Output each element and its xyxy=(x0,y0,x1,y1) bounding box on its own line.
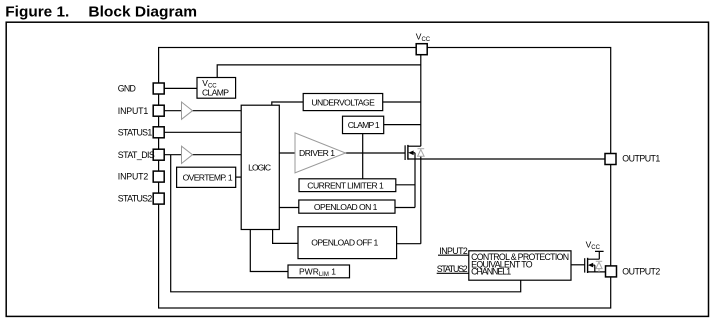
svg-text:INPUT1: INPUT1 xyxy=(118,106,149,116)
svg-text:INPUT2: INPUT2 xyxy=(118,172,149,182)
svg-text:STATUS1: STATUS1 xyxy=(118,127,153,137)
svg-text:VCC: VCC xyxy=(416,32,431,44)
svg-text:STATUS2: STATUS2 xyxy=(118,194,153,204)
svg-text:PWRLIM 1: PWRLIM 1 xyxy=(299,266,336,278)
svg-text:OUTPUT1: OUTPUT1 xyxy=(622,154,660,164)
svg-text:STATUS2: STATUS2 xyxy=(437,264,468,274)
svg-text:STAT_DIS: STAT_DIS xyxy=(118,150,155,160)
svg-text:OPENLOAD OFF 1: OPENLOAD OFF 1 xyxy=(311,238,378,248)
svg-text:CLAMP: CLAMP xyxy=(202,88,229,98)
svg-text:CLAMP 1: CLAMP 1 xyxy=(348,120,380,130)
svg-text:VCC: VCC xyxy=(586,239,601,251)
svg-text:LOGIC: LOGIC xyxy=(248,162,271,172)
svg-text:OPENLOAD ON 1: OPENLOAD ON 1 xyxy=(314,202,378,212)
svg-text:CURRENT LIMITER 1: CURRENT LIMITER 1 xyxy=(307,180,384,190)
svg-text:INPUT2: INPUT2 xyxy=(439,246,468,256)
svg-text:OVERTEMP. 1: OVERTEMP. 1 xyxy=(183,173,233,183)
svg-text:CHANNEL1: CHANNEL1 xyxy=(471,267,511,277)
svg-text:DRIVER 1: DRIVER 1 xyxy=(299,148,335,158)
svg-text:Figure 1.: Figure 1. xyxy=(5,4,69,21)
svg-text:Block Diagram: Block Diagram xyxy=(88,4,197,21)
svg-text:GND: GND xyxy=(118,84,136,94)
svg-text:OUTPUT2: OUTPUT2 xyxy=(622,267,660,277)
svg-text:UNDERVOLTAGE: UNDERVOLTAGE xyxy=(311,97,375,107)
